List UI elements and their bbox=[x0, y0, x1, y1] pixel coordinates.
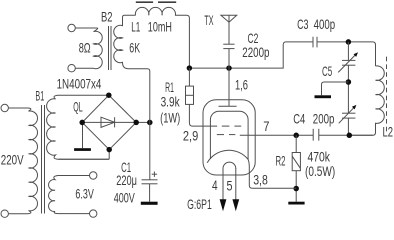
svg-text:C2: C2 bbox=[248, 31, 259, 46]
svg-text:220V: 220V bbox=[1, 153, 24, 168]
svg-text:470k: 470k bbox=[308, 150, 331, 165]
svg-text:10mH: 10mH bbox=[148, 20, 172, 35]
svg-text:6.3V: 6.3V bbox=[75, 186, 93, 201]
svg-text:200p: 200p bbox=[313, 112, 335, 127]
svg-text:5: 5 bbox=[227, 178, 233, 193]
svg-text:2200p: 2200p bbox=[242, 45, 269, 60]
svg-text:400V: 400V bbox=[114, 190, 135, 205]
svg-text:C3: C3 bbox=[297, 17, 308, 32]
svg-text:(0.5W): (0.5W) bbox=[305, 164, 335, 179]
svg-text:8Ω: 8Ω bbox=[79, 40, 91, 55]
svg-text:3.9k: 3.9k bbox=[161, 95, 180, 110]
svg-text:1N4007x4: 1N4007x4 bbox=[57, 77, 102, 92]
svg-text:QL: QL bbox=[73, 100, 83, 115]
svg-text:400p: 400p bbox=[314, 17, 336, 32]
svg-text:1,6: 1,6 bbox=[235, 77, 248, 92]
svg-text:B2: B2 bbox=[101, 9, 113, 24]
svg-text:C5: C5 bbox=[322, 64, 332, 79]
svg-text:2,9: 2,9 bbox=[183, 128, 198, 143]
svg-text:220μ: 220μ bbox=[116, 173, 137, 188]
svg-text:3,8: 3,8 bbox=[253, 172, 268, 187]
svg-text:C4: C4 bbox=[293, 112, 305, 127]
svg-text:B1: B1 bbox=[35, 89, 44, 104]
svg-text:6K: 6K bbox=[129, 41, 140, 56]
svg-text:L2: L2 bbox=[383, 125, 394, 140]
svg-text:L1: L1 bbox=[131, 20, 140, 35]
svg-text:R1: R1 bbox=[165, 80, 174, 95]
svg-text:G:6P1: G:6P1 bbox=[187, 197, 212, 212]
svg-text:4: 4 bbox=[212, 178, 218, 193]
svg-text:7: 7 bbox=[263, 119, 269, 134]
svg-text:(1W): (1W) bbox=[160, 110, 180, 125]
svg-text:R2: R2 bbox=[276, 154, 286, 169]
svg-text:TX: TX bbox=[204, 13, 213, 28]
